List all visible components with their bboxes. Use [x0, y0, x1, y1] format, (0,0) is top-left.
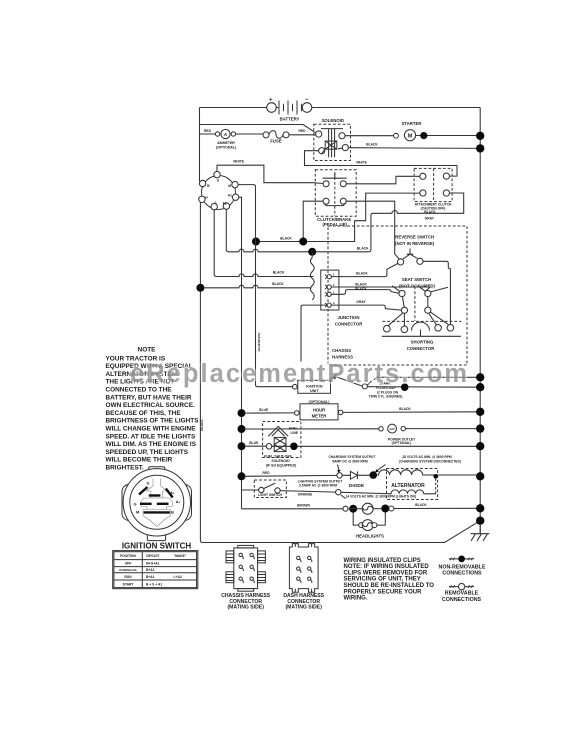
wire: fuel solenoid row — [244, 445, 480, 447]
svg-text:WILL BECOME THEIR: WILL BECOME THEIR — [106, 457, 173, 464]
wire: coil lead to spark plug — [336, 377, 363, 387]
junction node: rail / fuel row — [476, 442, 484, 450]
wire: junction pin3 row to seat switch — [331, 287, 430, 292]
svg-text:14 VOLTS AC MIN. @ 3600 RPM (L: 14 VOLTS AC MIN. @ 3600 RPM (LIGHTS ON) — [346, 495, 416, 499]
lighting output terminal — [336, 490, 341, 495]
svg-text:A₁: A₁ — [170, 490, 175, 495]
svg-text:G: G — [133, 502, 136, 507]
svg-text:WHITE: WHITE — [233, 160, 244, 164]
svg-text:BLACK: BLACK — [273, 271, 285, 275]
svg-text:BLUE: BLUE — [249, 441, 259, 445]
svg-text:BATTERY: BATTERY — [280, 117, 300, 122]
junction node: diode / alternator — [370, 471, 378, 479]
svg-text:CONNECTOR: CONNECTOR — [407, 346, 436, 351]
svg-text:BLACK: BLACK — [355, 287, 367, 291]
wire: G terminal ground rail to bottom — [200, 203, 478, 543]
wire: A1 terminal accessory feed — [239, 197, 242, 509]
svg-text:L+A2: L+A2 — [174, 575, 182, 579]
svg-text:(NOT OCCUPIED): (NOT OCCUPIED) — [399, 284, 435, 289]
svg-text:CLIPS WERE REMOVED FOR: CLIPS WERE REMOVED FOR — [344, 570, 428, 576]
svg-text:BLACK: BLACK — [280, 237, 292, 241]
svg-text:B + S + A1: B + S + A1 — [146, 583, 162, 587]
svg-text:BLACK: BLACK — [356, 271, 368, 275]
wire: junction pinA row to seat switch lower-left (gray) — [331, 305, 401, 310]
svg-text:BLUE/WHITE: BLUE/WHITE — [257, 333, 261, 352]
junction node: rail / alternator row — [476, 472, 484, 480]
wire: battery negative to right rail — [312, 107, 480, 109]
switch top tab — [149, 467, 165, 481]
svg-text:NON-REMOVABLE: NON-REMOVABLE — [439, 565, 486, 571]
svg-text:REMOVABLE: REMOVABLE — [445, 591, 479, 597]
svg-text:BLACK: BLACK — [357, 247, 369, 251]
junction node: rail / plug shell — [476, 373, 484, 381]
svg-text:WHITE: WHITE — [356, 161, 367, 165]
watermark — [130, 360, 467, 388]
fuse F1 — [263, 131, 289, 144]
wire: clutch/brake lower-left to black junction row — [303, 201, 323, 239]
svg-text:B: B — [171, 510, 174, 515]
svg-text:"MAKE": "MAKE" — [174, 554, 187, 558]
svg-text:SHOULD BE RE-INSTALLED TO: SHOULD BE RE-INSTALLED TO — [344, 583, 435, 589]
spark plug gap — [362, 376, 402, 399]
svg-text:A2: A2 — [222, 201, 226, 205]
svg-text:BROWN: BROWN — [297, 503, 310, 507]
svg-text:POSITION: POSITION — [120, 554, 136, 558]
wire: A2 terminal to attachment clutch LR (gray loop) — [226, 193, 463, 252]
chassis ground symbol — [471, 524, 490, 541]
svg-text:(IF SO EQUIPPED): (IF SO EQUIPPED) — [266, 464, 297, 468]
legend: non-removable connection — [449, 558, 474, 561]
svg-text:BRIGHTEST.: BRIGHTEST. — [106, 465, 144, 472]
wire: outlet feed row — [244, 428, 480, 430]
svg-text:CONNECTOR: CONNECTOR — [335, 322, 364, 327]
wire: right ground rail — [479, 108, 481, 534]
svg-text:(CHARGING SYSTEM DISCONNECTED): (CHARGING SYSTEM DISCONNECTED) — [399, 459, 461, 463]
svg-text:CHASSIS: CHASSIS — [332, 348, 351, 353]
svg-text:LINE: LINE — [291, 431, 299, 435]
svg-text:(MATING SIDE): (MATING SIDE) — [227, 604, 264, 610]
svg-text:RUN: RUN — [124, 575, 132, 579]
wire: hour meter feed (BLUE) — [244, 412, 294, 414]
fuel shut-off solenoid (if so equipped) — [263, 422, 301, 468]
svg-text:NOTE: IF WIRING INSULATED: NOTE: IF WIRING INSULATED — [344, 564, 430, 570]
seat switch (not occupied) — [388, 277, 448, 326]
charging system labels — [329, 455, 461, 473]
svg-text:ALTERNATOR: ALTERNATOR — [391, 483, 425, 489]
svg-text:−: − — [305, 97, 309, 103]
svg-text:FUSE: FUSE — [270, 138, 282, 143]
svg-text:WIRING.: WIRING. — [344, 596, 368, 602]
svg-text:BLACK: BLACK — [200, 419, 204, 431]
light switch — [254, 480, 286, 498]
alternator — [341, 469, 480, 500]
svg-text:OWN ELECTRICAL SOURCE.: OWN ELECTRICAL SOURCE. — [106, 402, 196, 409]
wire: plug center electrode row to rail — [367, 386, 480, 389]
svg-text:A1: A1 — [228, 193, 232, 197]
junction node: rail / starter row — [476, 132, 484, 140]
svg-text:12V: 12V — [389, 427, 394, 431]
svg-text:HEADLIGHTS: HEADLIGHTS — [356, 534, 384, 539]
svg-text:CONNECTIONS: CONNECTIONS — [442, 597, 482, 603]
svg-text:TWIN CYL. ENGINES): TWIN CYL. ENGINES) — [369, 395, 403, 399]
svg-text:ORANGE: ORANGE — [298, 493, 313, 497]
wire: clutch/brake LR to reverse switch — [346, 201, 399, 259]
svg-text:WILL CHANGE WITH ENGINE: WILL CHANGE WITH ENGINE — [106, 426, 197, 433]
svg-text:START: START — [123, 583, 134, 587]
svg-text:CONNECTIONS: CONNECTIONS — [442, 571, 482, 577]
svg-text:BLACK: BLACK — [415, 503, 427, 507]
switch position marks (dark) — [139, 487, 148, 495]
svg-text:M: M — [228, 184, 231, 188]
svg-text:GRAY: GRAY — [356, 300, 366, 304]
svg-text:SHORTING: SHORTING — [411, 340, 434, 345]
wire: hour meter to rail (BLACK) — [343, 411, 480, 414]
svg-text:RED: RED — [299, 129, 307, 133]
junction node: fuel solenoid tap — [290, 443, 298, 451]
svg-text:NOTE: NOTE — [138, 347, 157, 354]
wire: reverse switch right to shorting pin — [423, 261, 450, 324]
svg-text:L: L — [215, 201, 217, 205]
ignition unit — [293, 380, 331, 393]
svg-text:(MATING SIDE): (MATING SIDE) — [285, 604, 322, 610]
svg-text:5AMP DC @ 3600 RPM: 5AMP DC @ 3600 RPM — [332, 459, 368, 463]
junction node: A1 rail / hour meter row — [238, 409, 246, 417]
starter motor — [345, 121, 480, 141]
junction node: rail / chassis ground — [476, 517, 484, 525]
clutch/brake switch (pedal up) — [315, 170, 356, 228]
junction node: gray row tap to junction connector — [308, 248, 316, 256]
wire: light switch to alternator lighting output (ORANGE) — [280, 491, 336, 493]
junction connector — [310, 258, 363, 327]
battery B1 — [267, 97, 312, 122]
switch body square — [122, 485, 192, 521]
svg-text:LIGHT SWITCH: LIGHT SWITCH — [258, 493, 282, 497]
switch bottom tab — [147, 526, 165, 541]
svg-text:HARNESS: HARNESS — [332, 355, 353, 360]
svg-text:IGNITION SWITCH: IGNITION SWITCH — [122, 542, 192, 551]
wire: S terminal white wire to clutch/brake switch — [217, 165, 323, 183]
wire: ammeter/fuse row — [200, 133, 317, 136]
lighting labels — [298, 479, 416, 498]
svg-text:BECAUSE OF THIS, THE: BECAUSE OF THIS, THE — [106, 410, 182, 417]
svg-text:RUN/ENGAGE: RUN/ENGAGE — [119, 568, 137, 572]
junction node: plug row — [401, 383, 409, 391]
svg-text:REVERSE SWITCH: REVERSE SWITCH — [395, 235, 434, 240]
svg-text:SPEEDED UP, THE LIGHTS: SPEEDED UP, THE LIGHTS — [106, 449, 189, 456]
svg-text:M: M — [408, 133, 413, 139]
junction node: magneto wire tap — [252, 238, 260, 246]
svg-text:SEAT SWITCH: SEAT SWITCH — [402, 277, 431, 282]
svg-text:G: G — [205, 196, 208, 200]
wire: charging row (RED) — [244, 474, 337, 477]
svg-text:FUEL: FUEL — [289, 427, 298, 431]
svg-text:SOLENOID: SOLENOID — [322, 118, 344, 123]
svg-text:BRIGHTNESS OF THE LIGHTS: BRIGHTNESS OF THE LIGHTS — [106, 418, 200, 425]
svg-text:B+A1: B+A1 — [146, 568, 155, 572]
wire: junction pinA stub left — [301, 305, 327, 361]
svg-text:(OPTIONAL): (OPTIONAL) — [216, 145, 236, 149]
svg-text:PROPERLY SECURE YOUR: PROPERLY SECURE YOUR — [344, 589, 423, 595]
svg-text:JUNCTION: JUNCTION — [338, 315, 360, 320]
svg-text:SOLENOID: SOLENOID — [271, 459, 290, 463]
junction node: rail / solenoid row — [476, 144, 484, 152]
svg-text:FUEL SHUT-OFF: FUEL SHUT-OFF — [264, 455, 292, 459]
svg-text:DIODE: DIODE — [349, 483, 365, 489]
svg-text:B+A1: B+A1 — [146, 575, 155, 579]
svg-text:SPEED. AT IDLE THE LIGHTS: SPEED. AT IDLE THE LIGHTS — [106, 433, 196, 440]
svg-text:UNIT: UNIT — [310, 389, 319, 393]
svg-text:STARTER: STARTER — [402, 121, 423, 126]
headlights — [242, 503, 481, 538]
wire: light switch feed — [242, 489, 259, 491]
svg-text:BLACK: BLACK — [272, 282, 284, 286]
svg-text:CIRCUIT: CIRCUIT — [146, 554, 159, 558]
charging output terminal — [337, 473, 342, 478]
ignition switch (schematic) — [199, 171, 239, 209]
svg-text:RED: RED — [204, 129, 212, 133]
wire: left rail from battery down to ignition switch B terminal — [200, 108, 202, 183]
chassis harness dashed outline — [328, 226, 467, 365]
svg-text:S: S — [146, 480, 149, 485]
junction node: rail / hour meter row — [476, 408, 484, 416]
svg-text:BLACK: BLACK — [355, 282, 367, 286]
wire: clutch/brake to attachment clutch coil — [346, 176, 420, 184]
svg-text:OFF: OFF — [125, 562, 132, 566]
junction node: clutch/brake tap — [299, 238, 307, 246]
spark arrow from ignition unit — [330, 376, 334, 380]
svg-text:(OPTIONAL): (OPTIONAL) — [392, 441, 412, 445]
diode D1 — [342, 471, 370, 488]
power outlet 12V (optional) — [379, 424, 416, 445]
wire: solenoid output to rail (BLACK) — [348, 147, 480, 150]
junction node: rail / plug row — [476, 383, 484, 391]
svg-text:M+G+A1: M+G+A1 — [146, 562, 160, 566]
wire: junction pin1 row to seat switch left — [331, 290, 399, 295]
wire: spark plug shell to rail — [378, 376, 480, 378]
svg-text:HOUR: HOUR — [313, 407, 325, 412]
junction node: A1 rail / charging row — [238, 472, 246, 480]
solenoid — [314, 118, 351, 161]
svg-text:METER: METER — [312, 413, 327, 418]
svg-text:BLACK: BLACK — [399, 407, 411, 411]
svg-text:BATTERY, BUT HAVE THEIR: BATTERY, BUT HAVE THEIR — [106, 394, 192, 401]
switch inner circle — [130, 475, 184, 529]
svg-text:BLUE: BLUE — [259, 408, 269, 412]
junction node: A1 rail / outlet row — [238, 425, 246, 433]
wire: attachment clutch LL to black row (y=241.5) — [256, 193, 420, 241]
svg-text:eReplacementParts.com: eReplacementParts.com — [130, 360, 467, 388]
svg-text:SERVICING OF UNIT, THEY: SERVICING OF UNIT, THEY — [344, 577, 421, 583]
wire: battery cable branch to solenoid — [200, 125, 316, 133]
shorting connector — [382, 321, 462, 351]
svg-text:WILL DIM. AS THE ENGINE IS: WILL DIM. AS THE ENGINE IS — [106, 441, 197, 448]
svg-text:BLACK: BLACK — [366, 143, 378, 147]
svg-text:3.5AMP AC @ 3600 RPM: 3.5AMP AC @ 3600 RPM — [299, 484, 337, 488]
svg-text:GRAY: GRAY — [425, 216, 435, 220]
ammeter (optional) — [215, 129, 236, 149]
wire: gray tap down to junction harness — [311, 252, 313, 258]
reverse switch (not in reverse) — [395, 235, 435, 266]
svg-text:A₂: A₂ — [176, 499, 181, 504]
svg-text:AMMETER: AMMETER — [217, 141, 235, 145]
attachment clutch (caution off) — [414, 168, 452, 214]
wire: solenoid white wire to attachment clutch — [305, 151, 458, 176]
switch outer circle — [123, 469, 190, 536]
junction node: ground rail / junction connector pin 3 — [196, 284, 204, 292]
junction node: rail / outlet row — [476, 424, 484, 432]
wire: ground rail to junction connector pin 3 — [203, 285, 311, 288]
legend: removable connection — [449, 585, 474, 588]
svg-text:A: A — [333, 301, 335, 305]
svg-text:WIRING INSULATED CLIPS: WIRING INSULATED CLIPS — [344, 558, 421, 564]
svg-text:+: + — [269, 98, 273, 104]
junction node: A1 rail / fuel row — [238, 442, 246, 450]
svg-text:(NOT IN REVERSE): (NOT IN REVERSE) — [395, 241, 435, 246]
wire: junction pin2 row to reverse switch left — [331, 264, 397, 277]
junction node: rail / headlight row — [476, 504, 484, 512]
svg-text:RED: RED — [263, 471, 271, 475]
wire: L terminal to junction connector pin 2 — [214, 210, 313, 277]
wire: M terminal to ignition unit — [238, 185, 292, 387]
wire: battery positive to left rail — [200, 107, 267, 109]
keyway pattern — [141, 479, 173, 527]
hour meter (optional) — [295, 400, 343, 420]
